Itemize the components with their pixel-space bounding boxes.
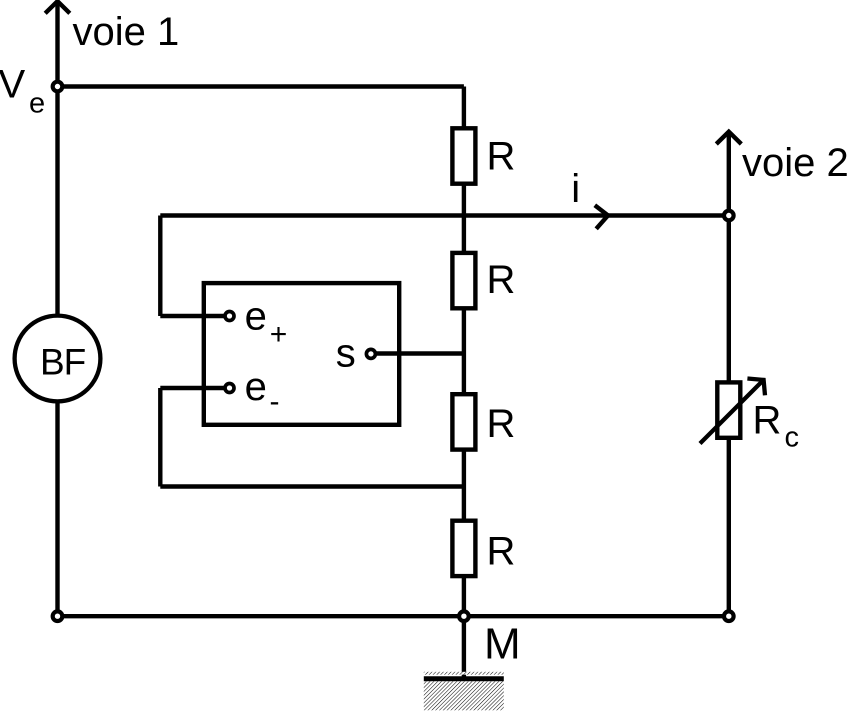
BF source	[15, 316, 101, 402]
pin e+	[225, 312, 234, 321]
node Ve	[53, 82, 63, 92]
svg-text:R: R	[487, 258, 516, 302]
wire middle vertical (R divider chain)	[462, 87, 466, 679]
svg-text:R: R	[487, 402, 516, 446]
svg-text:voie 1: voie 1	[73, 10, 180, 54]
svg-text:-: -	[270, 385, 280, 418]
node bottom left	[53, 611, 63, 621]
wire e+ pin	[160, 314, 226, 318]
arrow voie 2	[716, 132, 741, 144]
svg-text:s: s	[336, 332, 356, 376]
resistor R3	[452, 394, 475, 449]
svg-text:M: M	[484, 619, 521, 668]
ground hatch lower	[424, 681, 504, 710]
svg-text:R: R	[487, 134, 516, 178]
pin s	[366, 349, 375, 358]
wire top horizontal Ve to divider	[58, 84, 464, 88]
svg-text:R: R	[753, 398, 782, 442]
wire horizontal i (to voie 2)	[160, 213, 729, 217]
svg-text:voie 2: voie 2	[742, 141, 849, 185]
svg-text:R: R	[487, 530, 516, 574]
node M	[459, 611, 469, 621]
arrow voie 1	[45, 1, 70, 13]
svg-text:+: +	[270, 318, 288, 351]
svg-text:c: c	[785, 421, 800, 453]
ground bar	[424, 676, 504, 681]
wire left vertical (voie 1 / Ve branch)	[55, 3, 59, 617]
wire e- pin	[160, 386, 226, 390]
arrow i	[595, 205, 608, 229]
svg-text:V: V	[0, 63, 26, 107]
pin e-	[225, 384, 234, 393]
wire feedback vertical top (to e+)	[158, 216, 162, 317]
svg-text:e: e	[29, 88, 45, 120]
svg-text:e: e	[245, 294, 267, 338]
resistor R4	[452, 521, 475, 576]
op-amp U1 box	[204, 283, 399, 425]
node bottom right	[724, 611, 734, 621]
node voie 2 top	[724, 211, 734, 221]
wire feedback bottom horizontal	[160, 484, 464, 488]
wire s output	[375, 351, 464, 355]
svg-text:e: e	[245, 365, 267, 409]
svg-text:i: i	[571, 167, 580, 211]
wire bottom horizontal	[58, 614, 729, 618]
svg-text:BF: BF	[40, 342, 86, 383]
variable resistor arrow (Rc)	[700, 379, 765, 444]
resistor Rc (variable)	[717, 382, 740, 437]
resistor R1	[452, 128, 475, 183]
wire feedback vertical bottom (from e-)	[158, 388, 162, 487]
resistor R2	[452, 253, 475, 308]
wire right vertical (voie 2 / Rc branch)	[727, 132, 731, 616]
